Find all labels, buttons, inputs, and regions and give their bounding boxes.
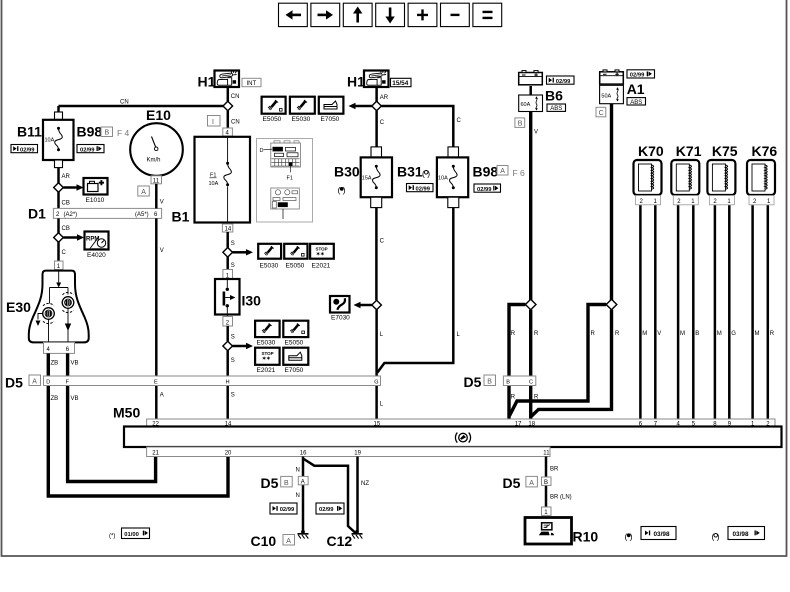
- svg-text:N: N: [296, 468, 300, 474]
- earth point E5030 (second row): [258, 244, 281, 270]
- box A near E10 wire: [138, 186, 150, 196]
- date box B98 02/99: [77, 145, 104, 154]
- svg-text:CN: CN: [120, 100, 129, 106]
- svg-text:03/98: 03/98: [654, 531, 670, 538]
- svg-text:E: E: [154, 379, 158, 385]
- svg-text:R: R: [511, 331, 516, 337]
- connector cell B on wire 11: [542, 477, 552, 486]
- svg-text:D5: D5: [464, 374, 482, 390]
- earth point E5050 (top row): [262, 97, 286, 123]
- wire AR from H1 right: [377, 87, 389, 102]
- wire C to B30: [377, 111, 385, 147]
- arrow to earth points row 3: [233, 343, 254, 349]
- gearbox sensor unit E30: [6, 261, 89, 353]
- battery symbol E1010: [84, 178, 108, 204]
- wire ZB from E30 pin4 to M50 pin20: [48, 353, 228, 496]
- node below B1: [223, 248, 233, 258]
- svg-text:A: A: [301, 479, 305, 485]
- svg-text:E2021: E2021: [257, 367, 276, 374]
- svg-text:02/99: 02/99: [477, 187, 492, 193]
- wire S from B1 pin14: [228, 232, 235, 248]
- box I: [208, 116, 221, 127]
- svg-text:VB: VB: [71, 396, 79, 402]
- label D5 with box A (R10 branch): [503, 475, 538, 491]
- svg-text:C12: C12: [327, 533, 353, 549]
- earth C10: [251, 530, 309, 549]
- earth point E5030 (top row): [290, 97, 315, 123]
- date box B6 02/99: [547, 76, 575, 85]
- arrow to E1010: [63, 186, 78, 189]
- wire from B6 node through D5 cell C to M50 pin18: [531, 310, 539, 419]
- connector cell A on wire 16: [298, 476, 308, 485]
- wire G K75 pin1: [729, 205, 736, 419]
- svg-text:02/99: 02/99: [20, 147, 35, 153]
- wire C below B30: [376, 208, 384, 301]
- box 15/54: [391, 78, 412, 87]
- wire BR from M50 pin11 to R10: [546, 457, 572, 508]
- svg-text:CN: CN: [231, 94, 240, 100]
- earth point E7030: [330, 296, 350, 322]
- wire M K70 pin2: [640, 205, 647, 419]
- svg-text:A: A: [141, 189, 146, 196]
- date box B31 02/99: [407, 184, 434, 193]
- relay K71: [671, 143, 701, 205]
- svg-text:R: R: [511, 395, 516, 401]
- wire S below I30: [228, 326, 235, 341]
- wire AR below B11: [59, 168, 71, 184]
- svg-text:E4020: E4020: [87, 252, 106, 259]
- svg-text:N: N: [296, 493, 300, 499]
- svg-text:16: 16: [300, 451, 307, 457]
- label B98 A with F6: [473, 164, 526, 180]
- svg-text:02/99: 02/99: [556, 79, 571, 85]
- fuse B11: [17, 112, 74, 168]
- svg-text:L: L: [457, 332, 461, 338]
- svg-text:ZB: ZB: [51, 396, 59, 402]
- wire CN to B1 pin 4: [228, 111, 240, 128]
- svg-text:VB: VB: [71, 361, 79, 367]
- svg-text:11: 11: [543, 451, 550, 457]
- svg-text:C: C: [62, 250, 67, 256]
- svg-text:14: 14: [225, 421, 232, 427]
- svg-text:21: 21: [152, 451, 159, 457]
- svg-text:20: 20: [225, 451, 232, 457]
- node RPM pickoff: [54, 233, 64, 243]
- svg-text:C: C: [380, 120, 385, 126]
- svg-text:B: B: [284, 480, 289, 487]
- relay K75: [707, 143, 737, 205]
- node below B11: [54, 183, 64, 193]
- svg-text:B: B: [544, 480, 548, 486]
- svg-text:E7030: E7030: [331, 315, 350, 322]
- svg-text:D5: D5: [503, 475, 521, 491]
- earth point E5050 (second row): [284, 244, 307, 270]
- svg-text:R: R: [534, 331, 539, 337]
- switch I30: [215, 270, 261, 327]
- svg-text:60A: 60A: [521, 102, 531, 108]
- svg-text:E7050: E7050: [285, 367, 304, 374]
- arrow to E4020: [63, 234, 84, 240]
- branch from A1 node to pin17: [509, 305, 606, 416]
- node H1/B1: [223, 101, 233, 111]
- svg-text:L: L: [380, 332, 384, 338]
- svg-text:15A: 15A: [362, 176, 372, 182]
- svg-text:B11: B11: [17, 124, 42, 140]
- node on A1 wire: [606, 299, 617, 310]
- wire V K70 pin1: [655, 205, 661, 419]
- svg-text:01/00: 01/00: [124, 532, 139, 538]
- node E7030 pickoff: [372, 300, 382, 310]
- svg-text:S: S: [231, 335, 235, 341]
- svg-text:M: M: [717, 331, 722, 337]
- wire M K76 pin2: [753, 205, 760, 419]
- svg-text:B6: B6: [545, 88, 563, 104]
- date box B11 02/99: [11, 145, 38, 154]
- svg-text:G: G: [374, 379, 378, 385]
- wire R K76 pin1: [768, 205, 775, 419]
- svg-text:K76: K76: [752, 143, 778, 159]
- svg-text:B98: B98: [77, 124, 103, 140]
- svg-text:F1: F1: [287, 176, 293, 182]
- svg-text:E10: E10: [146, 107, 171, 123]
- svg-text:K70: K70: [638, 143, 664, 159]
- connector D1: [28, 206, 162, 222]
- toolbar button minus: [441, 3, 470, 26]
- battery feed A1: [600, 70, 645, 104]
- node below I30: [223, 341, 233, 351]
- wire CB below D1: [59, 218, 70, 233]
- branch pin16 to C12: [303, 459, 356, 534]
- control unit R10: [525, 518, 598, 545]
- toolbar button down arrow: [376, 3, 405, 26]
- brake symbol in M50: [455, 433, 470, 443]
- M50 top pin numbers: [152, 421, 770, 427]
- svg-text:D5: D5: [5, 375, 23, 391]
- wire N from M50 pin16 to C10: [296, 457, 304, 532]
- toolbar button up arrow: [343, 3, 372, 26]
- box C: [596, 107, 606, 117]
- svg-text:B: B: [506, 379, 510, 385]
- earth point E7050 (top row): [319, 97, 344, 123]
- node on B6 wire: [525, 299, 536, 310]
- svg-text:22: 22: [152, 421, 159, 427]
- svg-text:17: 17: [515, 421, 522, 427]
- date box 02/99 right: [316, 503, 344, 514]
- svg-text:L: L: [380, 402, 384, 408]
- svg-text:M50: M50: [113, 405, 140, 421]
- svg-text:02/99: 02/99: [319, 507, 334, 513]
- pin 4 of B1: [223, 128, 233, 137]
- svg-text:15/54: 15/54: [392, 80, 408, 87]
- svg-text:R10: R10: [573, 529, 599, 545]
- ignition switch H1 (left): [198, 71, 240, 90]
- svg-text:C: C: [380, 239, 385, 245]
- svg-text:AR: AR: [62, 174, 71, 180]
- svg-text:( ): ( ): [712, 532, 720, 542]
- svg-text:E30: E30: [6, 299, 31, 315]
- svg-text:D: D: [46, 379, 50, 385]
- date box 02/99 left: [270, 503, 297, 514]
- svg-text:BR (LN): BR (LN): [550, 495, 572, 501]
- earth point E5050 (third row): [283, 321, 308, 347]
- earth point E2021 (second row): [310, 244, 334, 270]
- wire to B31 branch: [381, 106, 461, 147]
- svg-text:BR: BR: [550, 467, 559, 473]
- svg-text:CN: CN: [231, 120, 240, 126]
- svg-text:E5030: E5030: [292, 116, 311, 123]
- label D5 with box B (bottom): [261, 475, 293, 491]
- svg-text:03/98: 03/98: [733, 531, 749, 538]
- wire M K71 pin2: [678, 205, 685, 419]
- svg-text:B: B: [695, 331, 699, 337]
- svg-text:V: V: [657, 331, 661, 337]
- toolbar button left arrow: [279, 3, 308, 26]
- relay K70: [634, 143, 664, 205]
- svg-text:F 4: F 4: [117, 128, 130, 138]
- earth point E5030 (third row): [255, 321, 280, 347]
- fusebox B1: [172, 137, 251, 225]
- svg-text:K71: K71: [676, 143, 702, 159]
- speedometer E10: [130, 107, 183, 184]
- control unit M50: [113, 405, 782, 457]
- legend (dot) 03/98: [625, 527, 677, 542]
- svg-text:H: H: [226, 379, 230, 385]
- ignition switch H1 (right): [347, 71, 389, 90]
- svg-text:C: C: [529, 379, 533, 385]
- svg-text:R: R: [591, 331, 596, 337]
- pin 1 of R10: [542, 507, 552, 516]
- wire S to D5 and M50 pin14: [228, 351, 235, 419]
- svg-text:S: S: [231, 358, 235, 364]
- earth point E2021 (fourth row): [255, 348, 280, 374]
- svg-text:M: M: [642, 331, 647, 337]
- wire B K71 pin1: [693, 205, 699, 419]
- detail inset of fusebox: [257, 139, 313, 223]
- svg-text:E2021: E2021: [312, 263, 331, 270]
- connector D5 A (main): [5, 375, 381, 391]
- earth point E7050 (fourth row): [283, 348, 308, 374]
- svg-text:E5050: E5050: [263, 116, 282, 123]
- rev counter symbol E4020: [85, 232, 109, 260]
- box B: [515, 118, 525, 128]
- svg-text:S: S: [231, 241, 235, 247]
- svg-text:INT: INT: [247, 81, 257, 87]
- svg-text:B: B: [487, 379, 492, 386]
- svg-text:14: 14: [225, 227, 232, 233]
- svg-text:02/99: 02/99: [80, 147, 95, 153]
- svg-text:B: B: [105, 130, 110, 137]
- svg-text:G: G: [731, 331, 736, 337]
- arrow to earth points row: [233, 249, 254, 255]
- svg-text:02/99: 02/99: [280, 507, 295, 513]
- svg-text:D1: D1: [28, 206, 46, 222]
- svg-text:( ): ( ): [422, 169, 430, 179]
- svg-text:R: R: [615, 331, 620, 337]
- svg-text:AR: AR: [380, 95, 389, 101]
- svg-text:C: C: [599, 110, 604, 117]
- fuse B31: [397, 147, 468, 208]
- svg-text:ABS: ABS: [630, 100, 642, 106]
- wire from A1: [610, 104, 613, 301]
- svg-text:19: 19: [354, 451, 361, 457]
- arrow to E7030: [354, 302, 372, 308]
- svg-text:15: 15: [374, 421, 381, 427]
- date box A1 02/99: [627, 70, 655, 79]
- wire CN from H1 down: [228, 87, 240, 102]
- wire M K75 pin2: [715, 205, 722, 419]
- svg-text:10A: 10A: [209, 181, 219, 187]
- svg-text:(A5*): (A5*): [135, 212, 149, 218]
- svg-text:H1: H1: [347, 74, 365, 90]
- svg-text:A: A: [500, 168, 505, 175]
- svg-text:F 6: F 6: [513, 168, 526, 178]
- svg-text:D: D: [260, 148, 264, 154]
- wire V/A from E10 to M50 pin22: [156, 184, 163, 419]
- svg-text:C: C: [457, 118, 462, 124]
- node H1 right: [372, 101, 382, 111]
- wire C to E30: [59, 242, 67, 262]
- svg-text:I30: I30: [242, 293, 262, 309]
- svg-text:A: A: [32, 379, 37, 386]
- svg-text:Km/h: Km/h: [147, 158, 161, 164]
- battery feed B6: [519, 71, 563, 112]
- box ABS A1: [627, 98, 646, 106]
- toolbar button right arrow: [311, 3, 340, 26]
- toolbar button plus: [408, 3, 437, 26]
- relay K76: [747, 143, 777, 205]
- pin 14 of B1: [222, 224, 232, 233]
- svg-text:10A: 10A: [45, 138, 55, 144]
- svg-text:A: A: [286, 538, 291, 545]
- svg-text:NZ: NZ: [361, 481, 369, 487]
- legend (circle) 03/98: [712, 527, 765, 542]
- wire L from B31 joining D5: [377, 208, 460, 373]
- svg-text:V: V: [534, 130, 538, 136]
- svg-text:R: R: [770, 331, 775, 337]
- svg-text:50A: 50A: [601, 93, 611, 99]
- svg-text:V: V: [160, 200, 164, 206]
- svg-text:02/99: 02/99: [416, 186, 431, 192]
- svg-text:02/99: 02/99: [630, 73, 645, 79]
- svg-text:S: S: [231, 263, 235, 269]
- svg-text:M: M: [755, 331, 760, 337]
- arrow to earth points from H1 node: [349, 103, 372, 109]
- svg-text:H1: H1: [198, 74, 216, 90]
- wire B11 riser: [57, 106, 60, 113]
- svg-text:M: M: [680, 331, 685, 337]
- svg-text:C10: C10: [251, 533, 277, 549]
- wire CN horizontal from B11 to H1 node: [59, 100, 228, 107]
- svg-text:E5050: E5050: [286, 263, 305, 270]
- date box (*) 01/00: [109, 528, 150, 540]
- M50 bottom pin numbers: [152, 451, 550, 457]
- wire S to I30 pin1: [228, 257, 235, 269]
- svg-text:V: V: [160, 248, 164, 254]
- svg-text:CB: CB: [62, 201, 70, 207]
- wire L from B30 to M50 pin15: [377, 310, 384, 419]
- box ABS B6: [547, 104, 566, 112]
- svg-text:E1010: E1010: [86, 197, 105, 204]
- label B98 with box B and F4: [77, 124, 130, 140]
- svg-text:E7050: E7050: [321, 116, 340, 123]
- svg-text:E5050: E5050: [285, 340, 304, 347]
- svg-text:CB: CB: [62, 226, 70, 232]
- svg-text:10A: 10A: [438, 176, 448, 182]
- connector D5 B: [464, 374, 536, 390]
- svg-text:B31: B31: [397, 164, 423, 180]
- earth C12: [327, 530, 363, 549]
- svg-text:11: 11: [153, 178, 160, 184]
- wire VB from E30 pin6 to M50 pin21: [68, 353, 156, 481]
- svg-text:E5030: E5030: [257, 340, 276, 347]
- box INT: [242, 78, 261, 87]
- svg-text:E5030: E5030: [260, 263, 279, 270]
- wire through D5 cell B to M50 pin17: [509, 386, 516, 420]
- svg-text:B1: B1: [172, 209, 190, 225]
- svg-text:ZB: ZB: [51, 361, 59, 367]
- svg-text:A1: A1: [627, 81, 645, 97]
- svg-text:(*): (*): [109, 534, 115, 540]
- toolbar button equals: [473, 3, 502, 26]
- wire NZ from M50 pin19 to C12: [358, 457, 370, 532]
- wire from A1 node to pin18: [531, 310, 620, 417]
- svg-text:B98: B98: [473, 164, 499, 180]
- svg-text:18: 18: [528, 421, 535, 427]
- svg-text:I: I: [212, 119, 214, 126]
- svg-text:K75: K75: [712, 143, 738, 159]
- svg-text:S: S: [231, 393, 235, 399]
- wire CB to D1: [59, 192, 70, 209]
- branch to D5 B pin B: [509, 305, 539, 377]
- svg-text:ABS: ABS: [550, 106, 562, 112]
- wire V from B6: [531, 112, 538, 301]
- svg-text:D5: D5: [261, 475, 279, 491]
- svg-text:B: B: [518, 121, 523, 128]
- svg-text:(A2*): (A2*): [64, 212, 78, 218]
- svg-text:A: A: [160, 393, 164, 399]
- fuse B30: [334, 147, 392, 208]
- svg-text:B30: B30: [334, 164, 360, 180]
- date box B98A 02/99: [474, 184, 501, 193]
- svg-text:A: A: [529, 480, 534, 487]
